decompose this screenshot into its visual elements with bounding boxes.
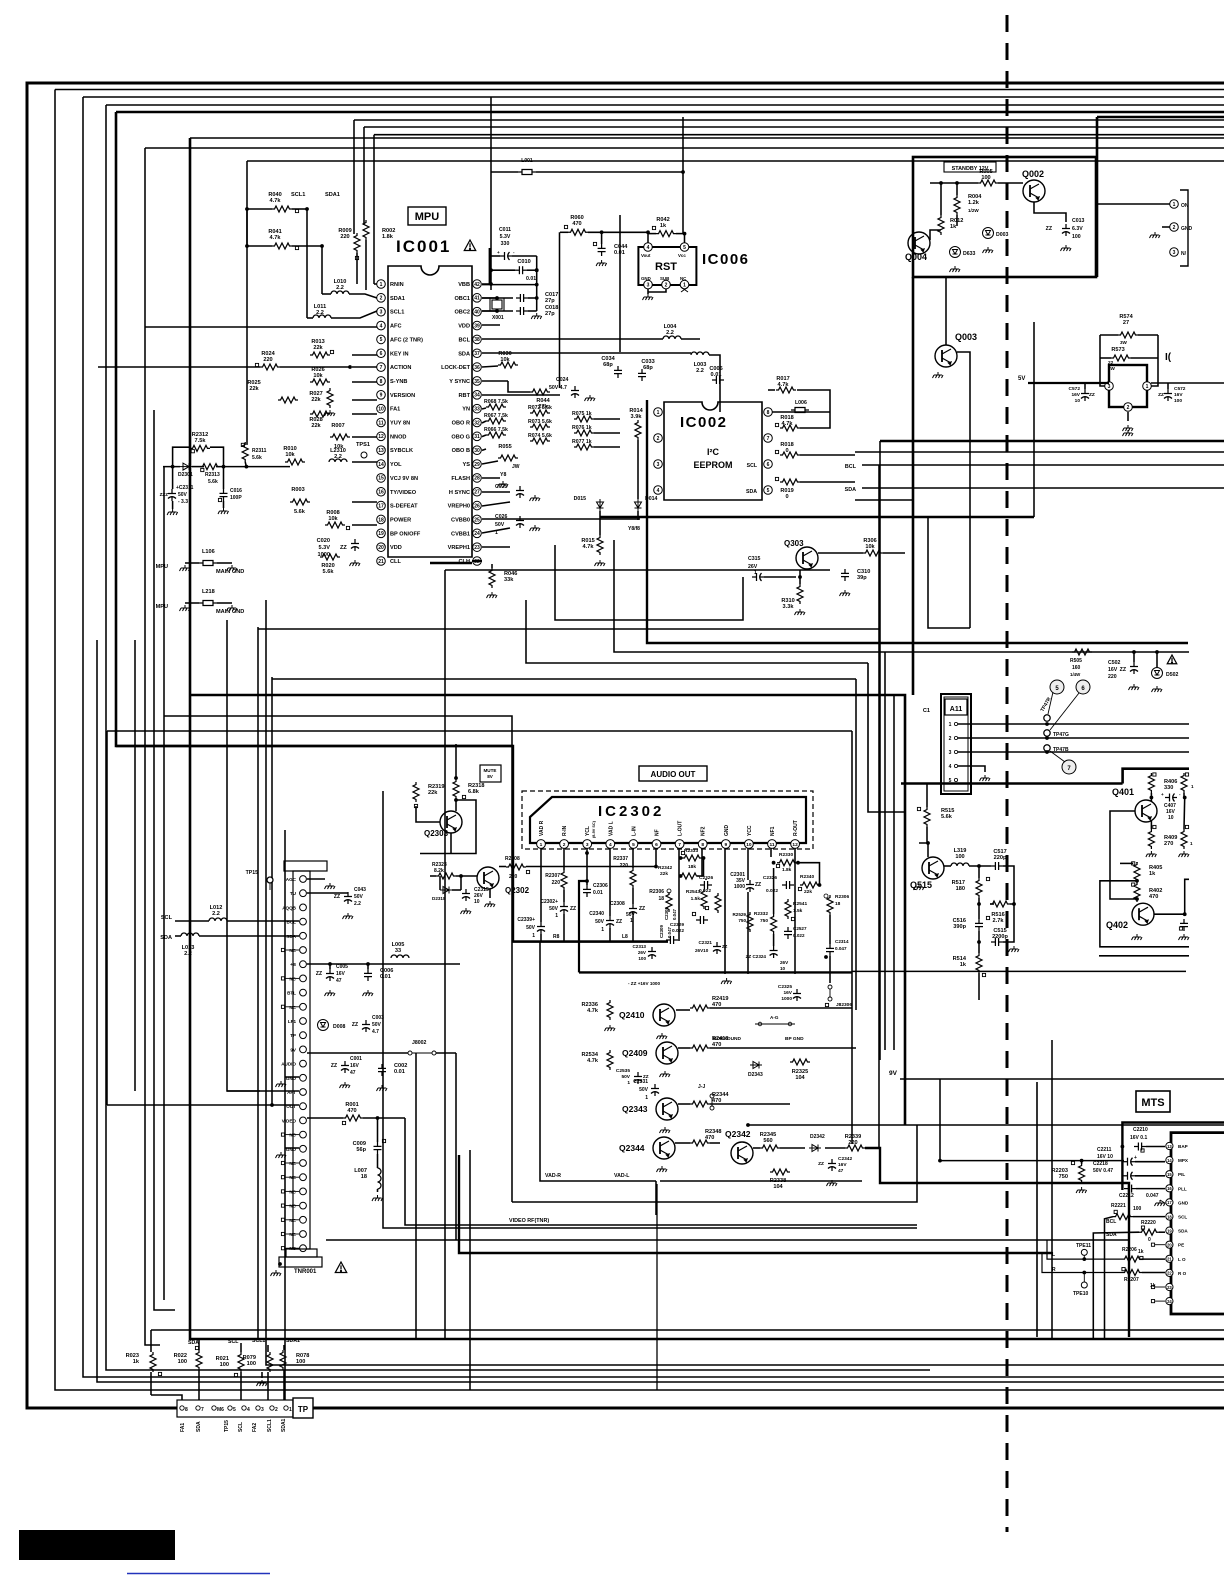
svg-text:C2535: C2535 xyxy=(616,1068,630,1074)
ground D003 xyxy=(983,247,994,253)
ic IC2302 dashed outline xyxy=(522,791,813,849)
svg-text:10k: 10k xyxy=(313,373,323,379)
svg-text:23: 23 xyxy=(474,545,480,551)
wire Q515 net xyxy=(978,866,980,878)
svg-text:ZZ: ZZ xyxy=(340,545,347,551)
resistor R014 xyxy=(635,420,641,440)
svg-text:5.6k: 5.6k xyxy=(208,479,218,485)
svg-text:R514: R514 xyxy=(953,956,967,962)
pin TNR001 NC xyxy=(300,1174,307,1181)
svg-text:2: 2 xyxy=(563,842,566,848)
wire IC006 top rail xyxy=(560,231,568,233)
wire audio pin xyxy=(307,1052,408,1054)
svg-text:1k: 1k xyxy=(133,1359,140,1365)
wire left vertical x247 xyxy=(246,161,248,445)
svg-text:C002: C002 xyxy=(394,1063,407,1069)
svg-text:1: 1 xyxy=(1190,841,1193,846)
svg-text:R2307: R2307 xyxy=(545,873,560,879)
wire route y731 xyxy=(107,730,852,732)
pin 7 IC2302 xyxy=(675,840,684,849)
wire left vertical x145 xyxy=(145,148,160,1345)
resistor R2344 xyxy=(690,1101,710,1107)
svg-text:D003: D003 xyxy=(996,232,1009,238)
wire route y716 xyxy=(164,716,512,1202)
wire MTS L xyxy=(1047,1240,1122,1259)
pin 39 IC001 xyxy=(473,321,482,330)
svg-text:R306: R306 xyxy=(863,538,876,544)
pin TP 1 xyxy=(284,1406,288,1410)
wire drop x364 xyxy=(363,127,365,225)
resistor R2203 xyxy=(1079,1163,1085,1183)
resistor R310 xyxy=(797,584,803,604)
ground GND14 xyxy=(276,1081,287,1087)
wire route y652 xyxy=(614,540,1189,652)
svg-text:NC: NC xyxy=(289,1204,296,1209)
svg-text:VREPH0: VREPH0 xyxy=(448,504,470,510)
svg-text:1k: 1k xyxy=(1138,1249,1144,1255)
ground C013 xyxy=(1061,245,1072,251)
svg-text:16V: 16V xyxy=(1071,392,1080,398)
svg-text:OBC2: OBC2 xyxy=(454,310,470,316)
svg-text:R2313: R2313 xyxy=(205,472,220,478)
svg-text:15: 15 xyxy=(1167,1172,1172,1177)
svg-text:LF1: LF1 xyxy=(288,1019,297,1024)
pin 20 IC001 xyxy=(377,543,386,552)
wire x536 col xyxy=(536,256,538,311)
diode D008 xyxy=(318,1020,329,1031)
wire left vertical x83 xyxy=(83,97,1224,1377)
wire top bus 4 xyxy=(354,119,1224,121)
wire AFC pin4 long xyxy=(145,326,377,328)
label MTS box xyxy=(1136,1091,1170,1112)
svg-text:NC: NC xyxy=(289,1005,296,1010)
svg-text:R005: R005 xyxy=(979,169,992,175)
switch A-G xyxy=(755,1023,795,1025)
svg-text:Q2409: Q2409 xyxy=(622,1048,648,1058)
svg-text:S-YNB: S-YNB xyxy=(390,379,407,385)
svg-text:4.7k: 4.7k xyxy=(587,1058,599,1064)
wire vertical x856 xyxy=(855,679,857,1010)
svg-text:3W: 3W xyxy=(1120,340,1128,345)
svg-text:100: 100 xyxy=(638,956,646,961)
resistor R046 xyxy=(489,568,495,588)
svg-text:C020: C020 xyxy=(317,538,330,544)
wire row 466 xyxy=(163,466,180,468)
resistor R2333 xyxy=(682,855,702,861)
svg-text:SDA: SDA xyxy=(160,935,172,941)
svg-text:TP: TP xyxy=(298,1405,309,1414)
pin TNR001 AQQB xyxy=(300,904,307,911)
pin 25 IC001 xyxy=(473,515,482,524)
svg-text:22k: 22k xyxy=(313,345,323,351)
svg-text:40: 40 xyxy=(474,310,480,316)
resistor R013 xyxy=(310,352,330,358)
svg-text:SDA1: SDA1 xyxy=(325,192,340,198)
svg-text:8: 8 xyxy=(701,842,704,848)
svg-text:33: 33 xyxy=(474,406,480,412)
svg-text:R2306: R2306 xyxy=(649,889,664,895)
svg-text:20: 20 xyxy=(1167,1243,1172,1248)
svg-text:MPU: MPU xyxy=(156,604,168,610)
svg-text:GND: GND xyxy=(724,825,730,837)
svg-text:- 3.3: - 3.3 xyxy=(178,499,188,505)
svg-text:25: 25 xyxy=(474,517,480,523)
svg-text:ZZ C2324: ZZ C2324 xyxy=(746,954,767,959)
wire reg out xyxy=(1151,382,1224,384)
svg-text:9V: 9V xyxy=(889,1070,898,1077)
svg-text:VAD-R: VAD-R xyxy=(545,1173,561,1179)
svg-text:VERSION: VERSION xyxy=(390,393,415,399)
svg-text:R023: R023 xyxy=(126,1353,139,1359)
svg-text:5: 5 xyxy=(767,488,770,494)
svg-text:22k: 22k xyxy=(249,386,259,392)
label TP box xyxy=(293,1398,313,1418)
svg-text:JW: JW xyxy=(512,464,520,470)
wire A11 pins out xyxy=(958,723,1189,725)
svg-text:4: 4 xyxy=(657,488,660,494)
svg-text:S-DEFEAT: S-DEFEAT xyxy=(390,504,418,510)
svg-text:C013: C013 xyxy=(1072,218,1085,224)
pin 6 IC2302 xyxy=(652,840,661,849)
svg-text:Vcc: Vcc xyxy=(678,253,686,258)
svg-text:220: 220 xyxy=(340,234,349,240)
pin 11 IC2302 xyxy=(768,840,777,849)
svg-text:470: 470 xyxy=(1149,894,1158,900)
svg-text:470: 470 xyxy=(347,1108,356,1114)
svg-text:C2339+: C2339+ xyxy=(517,917,535,923)
ground Q2344 xyxy=(657,1166,668,1172)
svg-text:6: 6 xyxy=(655,842,658,848)
wire route x470 xyxy=(469,1150,471,1390)
svg-text:2.2: 2.2 xyxy=(696,368,704,374)
svg-text:R019: R019 xyxy=(780,488,793,494)
wire AGC xyxy=(307,878,325,880)
svg-text:22k: 22k xyxy=(311,397,321,403)
svg-text:D015: D015 xyxy=(574,496,587,502)
black title block xyxy=(19,1530,175,1560)
svg-text:R004: R004 xyxy=(968,194,982,200)
wire x1184 up xyxy=(1185,879,1189,914)
resistor R027 xyxy=(327,388,333,408)
ground Q2409 xyxy=(660,1071,671,1077)
resistor R2339 xyxy=(845,1145,865,1151)
svg-text:C001: C001 xyxy=(350,1056,362,1062)
svg-text:C009: C009 xyxy=(353,1141,366,1147)
svg-text:PIL: PIL xyxy=(1178,1172,1185,1177)
capacitor C2325 xyxy=(793,989,801,1001)
capacitor C408 xyxy=(1180,919,1188,931)
resistor R024 xyxy=(260,364,280,370)
svg-text:R027: R027 xyxy=(309,391,322,397)
svg-text:19: 19 xyxy=(1167,1228,1172,1233)
svg-text:CVBB0: CVBB0 xyxy=(451,517,470,523)
wire Q2303 net xyxy=(455,799,457,811)
svg-text:2: 2 xyxy=(275,1407,278,1413)
ground Q402 xyxy=(1132,934,1143,940)
capacitor C2321 xyxy=(713,942,721,954)
resistor R020 xyxy=(320,554,340,560)
svg-text:3W: 3W xyxy=(1108,366,1116,371)
svg-text:2.2: 2.2 xyxy=(212,911,220,917)
svg-text:R078: R078 xyxy=(296,1353,309,1359)
inductor L012 xyxy=(209,918,227,921)
wire pin12 col xyxy=(794,848,796,974)
svg-text:C2325: C2325 xyxy=(778,984,792,990)
diode D502 xyxy=(1152,668,1163,679)
inductor L006 xyxy=(791,408,809,413)
capacitor C310 xyxy=(841,569,849,581)
capacitor C005 xyxy=(326,969,334,981)
svg-text:SDA: SDA xyxy=(1178,1229,1188,1234)
svg-text:R2332: R2332 xyxy=(754,911,768,917)
svg-text:D633: D633 xyxy=(963,251,976,257)
svg-text:NC: NC xyxy=(289,1218,296,1223)
svg-text:R021: R021 xyxy=(216,1356,229,1362)
svg-text:47: 47 xyxy=(838,1168,844,1174)
capacitor C2314 xyxy=(826,944,834,956)
pin TNR001 OUT xyxy=(300,1103,307,1110)
svg-text:2: 2 xyxy=(665,282,668,288)
ground C016 xyxy=(218,508,229,514)
capacitor C017 xyxy=(516,294,528,302)
connector TNR001 bottom xyxy=(286,1249,317,1257)
resistor R2311 xyxy=(242,442,248,462)
svg-text:3: 3 xyxy=(647,282,650,288)
transistor Q402 xyxy=(1132,903,1154,925)
pin 5 IC2302 xyxy=(629,840,638,849)
diode D2301 xyxy=(180,463,192,470)
wire OBOR pin32 xyxy=(482,421,486,423)
svg-text:TPE10: TPE10 xyxy=(1073,1291,1089,1297)
svg-text:D2318: D2318 xyxy=(432,896,446,901)
svg-text:16: 16 xyxy=(1167,1186,1172,1191)
wire L010 xyxy=(322,293,331,295)
transistor Q002 xyxy=(1023,180,1045,202)
label MPU box xyxy=(408,207,446,225)
pin 24 IC001 xyxy=(473,529,482,538)
svg-text:R2342: R2342 xyxy=(658,865,672,871)
svg-text:I²C: I²C xyxy=(707,447,719,457)
wire route y679 xyxy=(272,678,856,680)
svg-text:50V: 50V xyxy=(639,1087,649,1093)
pin 8 IC002 xyxy=(764,408,773,417)
wire vertical x491 xyxy=(490,97,492,290)
svg-text:R573: R573 xyxy=(1111,347,1124,353)
svg-text:10: 10 xyxy=(746,842,752,848)
ground C020 xyxy=(350,560,361,566)
svg-text:4.7: 4.7 xyxy=(372,1029,379,1035)
wire D502 row xyxy=(1133,652,1135,662)
resistor R2306 xyxy=(666,892,672,912)
ground C043 xyxy=(343,913,354,919)
transistor Q515 xyxy=(922,857,944,879)
ground C006b xyxy=(363,990,374,996)
pin TNR001 NC xyxy=(300,1231,307,1238)
svg-text:1.8k: 1.8k xyxy=(782,867,792,873)
capacitor C009 xyxy=(374,1142,382,1154)
capacitor C016 xyxy=(220,489,228,501)
wire route x227 xyxy=(227,620,260,1091)
svg-text:ZZ: ZZ xyxy=(818,1161,824,1167)
svg-text:13: 13 xyxy=(378,448,384,454)
pin TNR001 VIDEO xyxy=(300,1117,307,1124)
svg-text:ZZ: ZZ xyxy=(570,906,576,912)
pin 41 IC001 xyxy=(473,294,482,303)
pin 21 MTS xyxy=(1166,1255,1173,1262)
svg-text:NC: NC xyxy=(289,1161,296,1166)
svg-text:R077 1k: R077 1k xyxy=(572,439,592,445)
pin 2 IC002 xyxy=(654,434,663,443)
svg-text:N/: N/ xyxy=(1181,251,1187,257)
wire thick x868 step xyxy=(868,663,905,812)
transistor Q2302 xyxy=(477,867,499,889)
wire route y629 xyxy=(258,628,879,630)
resistor R2307 xyxy=(561,870,567,890)
resistor R007 xyxy=(330,434,350,440)
svg-text:R067 7.5k: R067 7.5k xyxy=(484,413,508,419)
wire corner y117 thick xyxy=(1097,116,1224,119)
pin 4 IC001 xyxy=(377,321,386,330)
svg-text:0.01: 0.01 xyxy=(380,974,391,980)
resistor R010 xyxy=(285,459,305,465)
svg-text:7: 7 xyxy=(678,842,681,848)
pin TNR001 TU xyxy=(300,890,307,897)
resistor R2325 xyxy=(790,1059,810,1065)
capacitor C2301 xyxy=(746,880,754,892)
svg-text:R024: R024 xyxy=(261,351,275,357)
capacitor C2306 xyxy=(583,885,591,897)
wire SCL out xyxy=(800,454,855,456)
wire to IC001 left pin xyxy=(352,399,377,401)
svg-text:4.7k: 4.7k xyxy=(583,544,595,550)
svg-text:27: 27 xyxy=(474,490,480,496)
svg-text:1: 1 xyxy=(645,1095,648,1101)
wire Q402 box xyxy=(1100,881,1189,947)
capacitor C572b xyxy=(1164,389,1172,401)
wire thick y941 xyxy=(513,940,668,942)
svg-text:17: 17 xyxy=(1167,1200,1172,1205)
svg-text:MPX: MPX xyxy=(1178,1158,1189,1163)
capacitor C024 xyxy=(571,386,579,398)
svg-text:3.9k: 3.9k xyxy=(631,414,643,420)
svg-text:Q002: Q002 xyxy=(1022,169,1044,179)
svg-text:4: 4 xyxy=(380,323,383,329)
svg-text:R2344: R2344 xyxy=(712,1092,729,1098)
pin 29 IC001 xyxy=(473,460,482,469)
wire route x416 xyxy=(415,1053,417,1339)
svg-text:C043: C043 xyxy=(354,887,366,893)
resistor R012 xyxy=(938,215,944,235)
pin 18 IC001 xyxy=(377,515,386,524)
wire Q2342 net xyxy=(753,1147,760,1149)
svg-text:35: 35 xyxy=(474,379,480,385)
svg-text:CVBB1: CVBB1 xyxy=(451,531,470,537)
pin 16 IC001 xyxy=(377,487,386,496)
wire mts sda xyxy=(1093,1232,1139,1340)
wire CN pin1 xyxy=(1096,203,1170,205)
pin TNR001 AFT xyxy=(300,1089,307,1096)
svg-text:TNR001: TNR001 xyxy=(294,1269,317,1275)
svg-text:C006: C006 xyxy=(380,968,393,974)
pin 35 IC001 xyxy=(473,377,482,386)
svg-text:YN: YN xyxy=(462,407,470,413)
svg-text:PLL: PLL xyxy=(1178,1186,1187,1191)
wire reg gnd xyxy=(1127,412,1129,421)
svg-text:4: 4 xyxy=(247,1407,250,1413)
svg-text:50V: 50V xyxy=(526,925,536,931)
svg-text:27: 27 xyxy=(1123,320,1129,326)
svg-text:1: 1 xyxy=(380,282,383,288)
svg-text:50V 4.7: 50V 4.7 xyxy=(549,385,567,391)
ic IC006 body xyxy=(638,247,696,285)
pin 5 IC002 xyxy=(764,486,773,495)
svg-text:0.022: 0.022 xyxy=(672,928,684,934)
svg-text:OBO G: OBO G xyxy=(451,434,470,440)
svg-text:750: 750 xyxy=(760,918,768,924)
pin 2 CN xyxy=(1170,223,1179,232)
svg-text:R013: R013 xyxy=(311,339,324,345)
wire pin3 col xyxy=(586,848,588,885)
svg-text:ZZ: ZZ xyxy=(316,971,322,977)
capacitor C2329 xyxy=(696,916,708,924)
svg-text:R2220: R2220 xyxy=(1141,1220,1156,1226)
inductor L010 xyxy=(331,291,349,294)
svg-text:YOL: YOL xyxy=(390,462,402,468)
capacitor C043 xyxy=(344,892,352,904)
resistor R2312 xyxy=(190,445,210,451)
svg-text:R2207: R2207 xyxy=(1124,1277,1139,1283)
svg-text:R003: R003 xyxy=(291,487,304,493)
svg-text:ZZ: ZZ xyxy=(352,1022,358,1028)
svg-text:TP47G: TP47G xyxy=(1053,732,1069,738)
wire thick y1253 xyxy=(459,1155,1052,1253)
svg-text:104: 104 xyxy=(795,1075,805,1081)
svg-text:16V 10: 16V 10 xyxy=(1097,1154,1113,1160)
svg-text:5.6k: 5.6k xyxy=(323,569,335,575)
svg-text:1000: 1000 xyxy=(734,884,745,890)
svg-text:0.01: 0.01 xyxy=(394,1069,405,1075)
svg-text:9: 9 xyxy=(380,393,383,399)
svg-text:SYBCLK: SYBCLK xyxy=(390,448,413,454)
svg-text:R8: R8 xyxy=(553,934,560,940)
wire bridge 928 xyxy=(928,517,970,628)
resistor R2330 xyxy=(777,860,797,866)
svg-text:3: 3 xyxy=(949,750,952,756)
ground R2336 xyxy=(605,1025,616,1031)
connector TNR001 top cap xyxy=(284,861,327,871)
svg-text:50V: 50V xyxy=(495,522,505,528)
svg-text:VAD R: VAD R xyxy=(539,820,545,836)
resistor R2337 xyxy=(630,868,636,888)
wire left vertical x55 xyxy=(55,90,1224,1391)
svg-text:ZZ: ZZ xyxy=(331,1063,337,1069)
svg-text:Q2342: Q2342 xyxy=(725,1129,751,1139)
svg-text:2: 2 xyxy=(1173,225,1176,231)
svg-text:5.6k: 5.6k xyxy=(294,509,306,515)
wire vertical x683 xyxy=(682,117,684,234)
pin 2 regulator xyxy=(1124,403,1133,412)
testpoint TP15 xyxy=(267,877,273,883)
svg-text:R2330: R2330 xyxy=(779,852,793,858)
svg-text:7.5k: 7.5k xyxy=(195,438,207,444)
wire bus h517 thick xyxy=(600,516,1034,519)
svg-text:R405: R405 xyxy=(1149,865,1162,871)
svg-text:C2313: C2313 xyxy=(632,944,646,949)
capacitor C002 xyxy=(378,1064,386,1076)
svg-text:1: 1 xyxy=(555,913,558,919)
resistor R514 xyxy=(976,953,982,973)
capacitor C2339 xyxy=(537,922,545,934)
